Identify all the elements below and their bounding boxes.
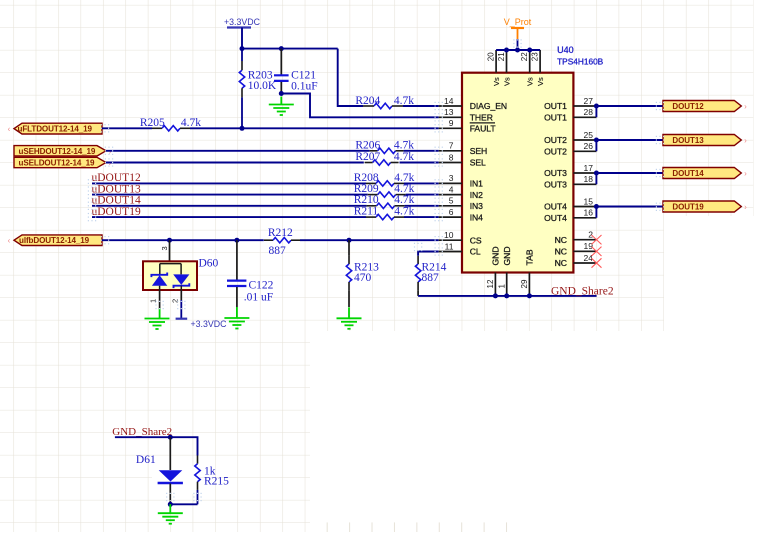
wire C121 bottom to THER bbox=[281, 94, 438, 118]
ground below C122 bbox=[236, 307, 238, 318]
svg-text:21: 21 bbox=[497, 52, 506, 61]
svg-text:28: 28 bbox=[584, 107, 594, 117]
svg-text:DOUT14: DOUT14 bbox=[672, 169, 704, 178]
ground D60 pin1 bbox=[159, 309, 161, 319]
resistor R204 4.7k bbox=[363, 105, 374, 107]
power port +3.3VDC top bbox=[227, 26, 251, 28]
wire uDOUT12 bbox=[92, 182, 366, 184]
wire OUT pair to DOUT19 bbox=[596, 207, 663, 218]
svg-text:26: 26 bbox=[584, 141, 594, 151]
svg-text:GND_Share2: GND_Share2 bbox=[551, 285, 614, 297]
svg-text:›: › bbox=[744, 102, 747, 111]
wire +3.3V rail bbox=[242, 48, 338, 50]
wire GND_Share2 bottom of chip bbox=[418, 295, 596, 297]
svg-text:›: › bbox=[744, 136, 747, 145]
pin 6 IN4 bbox=[439, 216, 462, 218]
svg-text:IN1: IN1 bbox=[470, 179, 483, 189]
svg-text:Vs: Vs bbox=[536, 77, 545, 86]
wire OUT pair to DOUT13 bbox=[596, 140, 663, 151]
svg-text:GND: GND bbox=[491, 246, 501, 265]
junction C122 bbox=[234, 238, 239, 243]
resistor R209 4.7k bbox=[368, 194, 378, 196]
svg-text:5: 5 bbox=[449, 196, 454, 206]
svg-text:R211: R211 bbox=[354, 206, 379, 218]
svg-text:4.7k: 4.7k bbox=[394, 183, 414, 195]
svg-text:470: 470 bbox=[354, 272, 372, 284]
svg-text:R208: R208 bbox=[354, 172, 379, 184]
svg-text:D60: D60 bbox=[199, 258, 219, 270]
svg-text:OUT4: OUT4 bbox=[544, 202, 567, 212]
pin 10 CS bbox=[439, 239, 462, 241]
op-amp U40 TPS4H160B body bbox=[462, 73, 573, 273]
pin 17 OUT3 bbox=[573, 172, 596, 174]
svg-text:TAB: TAB bbox=[525, 249, 535, 265]
svg-text:Vs: Vs bbox=[492, 77, 501, 86]
pin 26 OUT2 bbox=[573, 150, 596, 152]
resistor R205 4.7k bbox=[152, 127, 162, 129]
svg-text:+3.3VDC: +3.3VDC bbox=[191, 319, 228, 329]
svg-text:NC: NC bbox=[555, 247, 567, 257]
pin 21 Vs (top) bbox=[506, 50, 508, 73]
port DOUT12 bbox=[663, 101, 741, 112]
resistor R206 4.7k bbox=[370, 150, 378, 152]
svg-text:FAULT: FAULT bbox=[470, 124, 497, 134]
wire CL pin 11 to R214 bbox=[418, 252, 439, 256]
svg-text:Vs: Vs bbox=[503, 77, 512, 86]
pin 25 OUT2 bbox=[573, 139, 596, 141]
svg-text:SEL: SEL bbox=[470, 158, 486, 168]
svg-text:4.7k: 4.7k bbox=[394, 194, 414, 206]
power port V_Prot bbox=[517, 39, 519, 50]
svg-text:1: 1 bbox=[497, 284, 506, 289]
svg-text:uSELDOUT12-14_19: uSELDOUT12-14_19 bbox=[19, 159, 96, 168]
svg-text:19: 19 bbox=[584, 241, 594, 251]
port uSEHDOUT12-14_19 bbox=[14, 146, 106, 156]
junction D60 pin3 bbox=[167, 238, 172, 243]
svg-text:7: 7 bbox=[449, 141, 454, 151]
svg-text:8: 8 bbox=[449, 152, 454, 162]
pin 23 Vs (top) bbox=[539, 50, 541, 73]
svg-text:4.7k: 4.7k bbox=[394, 151, 414, 163]
svg-text:SEH: SEH bbox=[470, 146, 488, 156]
svg-text:uDOUT13: uDOUT13 bbox=[92, 183, 141, 195]
svg-text:IN3: IN3 bbox=[470, 201, 483, 211]
resistor R213 470 bbox=[348, 240, 350, 256]
resistor R214 887 bbox=[417, 256, 419, 264]
svg-text:24: 24 bbox=[584, 253, 594, 263]
junction at R203 top bbox=[240, 46, 245, 51]
pin 29 (bottom) bbox=[528, 273, 530, 296]
svg-text:4.7k: 4.7k bbox=[394, 139, 414, 151]
svg-text:V_Prot: V_Prot bbox=[504, 17, 532, 27]
svg-text:0.1uF: 0.1uF bbox=[291, 81, 318, 93]
svg-text:IN4: IN4 bbox=[470, 212, 483, 222]
svg-text:CL: CL bbox=[470, 247, 481, 257]
grid region A (left) bbox=[0, 0, 310, 532]
svg-text:4.7k: 4.7k bbox=[181, 117, 201, 129]
pin 3 IN1 bbox=[439, 182, 462, 184]
wire uDOUT14 bbox=[92, 205, 367, 207]
svg-text:R204: R204 bbox=[355, 95, 380, 107]
svg-text:OUT4: OUT4 bbox=[544, 213, 567, 223]
wire R204 to pin 14 bbox=[403, 105, 439, 107]
NC pin no-connect X marks bbox=[592, 235, 602, 244]
svg-text:uDOUT14: uDOUT14 bbox=[92, 195, 141, 207]
wire uSEL port to SEL pin 8 bbox=[106, 162, 364, 164]
svg-text:27: 27 bbox=[584, 96, 594, 106]
pin 20 Vs (top) bbox=[495, 50, 497, 73]
wire uDOUT13 bbox=[92, 194, 368, 196]
power port +3.3VDC bottom bbox=[176, 318, 188, 320]
svg-text:NC: NC bbox=[555, 258, 567, 268]
svg-text:DIAG_EN: DIAG_EN bbox=[470, 101, 507, 111]
D60 pin 2 to +3.3VDC bbox=[180, 290, 182, 300]
diode D60 body bbox=[169, 240, 171, 263]
svg-text:18: 18 bbox=[584, 174, 594, 184]
pin 24 NC bbox=[573, 262, 596, 264]
wire OUT pair to DOUT12 bbox=[596, 106, 663, 117]
svg-text:GND: GND bbox=[502, 246, 512, 265]
capacitor C122 bbox=[236, 240, 238, 280]
svg-text:887: 887 bbox=[269, 245, 287, 257]
svg-text:9: 9 bbox=[449, 118, 454, 128]
svg-text:16: 16 bbox=[584, 208, 594, 218]
pin 19 NC bbox=[573, 250, 596, 252]
svg-text:R205: R205 bbox=[140, 117, 165, 129]
pin 7 SEH bbox=[439, 150, 462, 152]
svg-text:TPS4H160B: TPS4H160B bbox=[557, 57, 604, 67]
wire uDOUT19 bbox=[92, 216, 366, 218]
wire rail corner down to DIAG_EN bbox=[338, 49, 363, 106]
svg-text:11: 11 bbox=[445, 241, 454, 251]
svg-text:U40: U40 bbox=[557, 45, 574, 55]
svg-text:C122: C122 bbox=[249, 279, 274, 291]
port DOUT14 bbox=[663, 168, 741, 179]
grid region C (right top) bbox=[664, 0, 754, 216]
svg-text:15: 15 bbox=[584, 196, 594, 206]
wire GND_Share2 bbox=[115, 437, 198, 455]
wire top pins 21-22 V_Prot bbox=[496, 49, 540, 51]
svg-text:uDOUT19: uDOUT19 bbox=[92, 206, 141, 218]
svg-text:25: 25 bbox=[584, 130, 594, 140]
svg-text:20: 20 bbox=[487, 52, 496, 61]
resistor R211 4.7k bbox=[366, 216, 376, 218]
svg-text:DOUT19: DOUT19 bbox=[672, 202, 704, 211]
ground below C121 bbox=[280, 97, 282, 105]
svg-text:R206: R206 bbox=[355, 139, 380, 151]
wire uSEH port to SEH pin 7 bbox=[106, 150, 370, 152]
port ulfbDOUT12-14_19 bbox=[14, 235, 102, 246]
svg-text:887: 887 bbox=[422, 272, 440, 284]
resistor R208 4.7k bbox=[366, 182, 376, 184]
svg-text:29: 29 bbox=[520, 279, 529, 288]
pin 18 OUT3 bbox=[573, 183, 596, 185]
svg-text:22: 22 bbox=[520, 52, 529, 61]
pin 11 CL bbox=[439, 251, 462, 253]
svg-text:›: › bbox=[744, 169, 747, 178]
pin 16 OUT4 bbox=[573, 217, 596, 219]
svg-text:OUT2: OUT2 bbox=[544, 135, 567, 145]
svg-text:C121: C121 bbox=[291, 69, 316, 81]
pin 4 IN2 bbox=[439, 194, 462, 196]
pin 2 NC bbox=[573, 239, 596, 241]
svg-text:CS: CS bbox=[470, 235, 482, 245]
svg-text:DOUT13: DOUT13 bbox=[672, 136, 704, 145]
junction at C121 top bbox=[279, 46, 284, 51]
white patch artifact bbox=[152, 466, 200, 494]
port DOUT19 bbox=[663, 201, 741, 212]
svg-text:14: 14 bbox=[444, 96, 454, 106]
svg-text:R212: R212 bbox=[268, 227, 293, 239]
svg-text:OUT3: OUT3 bbox=[544, 180, 567, 190]
svg-text:R210: R210 bbox=[354, 194, 379, 206]
wire uFLT port to FAULT pin 9 bbox=[102, 127, 152, 129]
pin 22 Vs (top) bbox=[529, 50, 531, 73]
svg-text:10: 10 bbox=[444, 230, 454, 240]
wire OUT pair to DOUT14 bbox=[596, 173, 663, 184]
svg-text:D61: D61 bbox=[136, 454, 156, 466]
svg-text:OUT1: OUT1 bbox=[544, 113, 567, 123]
pin 28 OUT1 bbox=[573, 116, 596, 118]
svg-text:3: 3 bbox=[449, 173, 454, 183]
svg-text:OUT3: OUT3 bbox=[544, 168, 567, 178]
svg-text:R215: R215 bbox=[204, 475, 229, 487]
resistor R215 1k bbox=[197, 456, 199, 464]
capacitor C121 bbox=[280, 49, 282, 75]
port uSELDOUT12-14_19 bbox=[14, 157, 106, 167]
svg-text:R207: R207 bbox=[355, 151, 380, 163]
junction at C121 bottom bbox=[279, 91, 284, 96]
svg-text:+3.3VDC: +3.3VDC bbox=[224, 17, 261, 27]
svg-text:3: 3 bbox=[160, 246, 169, 250]
svg-text:THER: THER bbox=[470, 113, 493, 123]
svg-text:Vs: Vs bbox=[526, 77, 535, 86]
svg-text:.01 uF: .01 uF bbox=[244, 291, 273, 303]
grid tick row bottom middle bbox=[327, 522, 506, 532]
D60 right zener diode (down) bbox=[173, 274, 189, 285]
svg-text:uDOUT12: uDOUT12 bbox=[92, 172, 141, 184]
svg-text:ulfbDOUT12-14_19: ulfbDOUT12-14_19 bbox=[19, 236, 90, 245]
wire bottom of D61/R215 bbox=[170, 503, 197, 505]
junction R203 on FAULT net bbox=[240, 126, 245, 131]
svg-text:DOUT12: DOUT12 bbox=[672, 102, 704, 111]
pin 15 OUT4 bbox=[573, 206, 596, 208]
svg-text:OUT1: OUT1 bbox=[544, 101, 567, 111]
pin 13 THER bbox=[439, 116, 462, 118]
svg-text:R209: R209 bbox=[354, 183, 379, 195]
svg-text:10.0K: 10.0K bbox=[248, 80, 277, 92]
svg-text:4.7k: 4.7k bbox=[394, 206, 414, 218]
port uFLTDOUT12-14_19 bbox=[14, 123, 102, 134]
D60 left zener diode (up) bbox=[151, 273, 167, 278]
pin 5 IN3 bbox=[439, 205, 462, 207]
svg-text:OUT2: OUT2 bbox=[544, 147, 567, 157]
svg-text:4.7k: 4.7k bbox=[394, 172, 414, 184]
connection markers bbox=[88, 39, 664, 501]
pin 12 (bottom) bbox=[494, 273, 496, 296]
pin 27 OUT1 bbox=[573, 105, 596, 107]
svg-text:6: 6 bbox=[449, 207, 454, 217]
svg-text:›: › bbox=[744, 203, 747, 212]
svg-text:‹: ‹ bbox=[8, 236, 11, 245]
svg-text:uFLTDOUT12-14_19: uFLTDOUT12-14_19 bbox=[18, 124, 93, 133]
resistor R203 bbox=[241, 49, 243, 61]
resistor R212 887 bbox=[264, 239, 273, 241]
D60 pin 1 bbox=[159, 290, 161, 309]
svg-text:NC: NC bbox=[555, 235, 567, 245]
svg-text:2: 2 bbox=[588, 230, 593, 240]
grid region B (middle top) bbox=[310, 0, 664, 331]
svg-text:23: 23 bbox=[531, 52, 540, 61]
svg-text:17: 17 bbox=[584, 163, 594, 173]
diode D61 bbox=[169, 437, 171, 470]
resistor R210 4.7k bbox=[367, 205, 377, 207]
svg-text:12: 12 bbox=[486, 279, 495, 288]
ground below D61 bbox=[169, 504, 171, 513]
svg-text:4: 4 bbox=[449, 184, 454, 194]
pin 9 FAULT bbox=[439, 127, 462, 129]
junction R213 bbox=[347, 238, 352, 243]
pin 1 (bottom) bbox=[506, 273, 508, 296]
svg-text:IN2: IN2 bbox=[470, 190, 483, 200]
pin 14 DIAG_EN bbox=[439, 105, 462, 107]
resistor R207 4.7k bbox=[365, 162, 373, 164]
D60 internal bus bbox=[160, 264, 181, 275]
pin 8 SEL bbox=[439, 162, 462, 164]
ground below R213 bbox=[348, 307, 350, 318]
svg-text:uSEHDOUT12-14_19: uSEHDOUT12-14_19 bbox=[19, 147, 96, 156]
svg-text:‹: ‹ bbox=[8, 125, 11, 134]
wire ulfb port to CS bbox=[102, 239, 264, 241]
port DOUT13 bbox=[663, 135, 741, 146]
svg-text:13: 13 bbox=[444, 107, 454, 117]
